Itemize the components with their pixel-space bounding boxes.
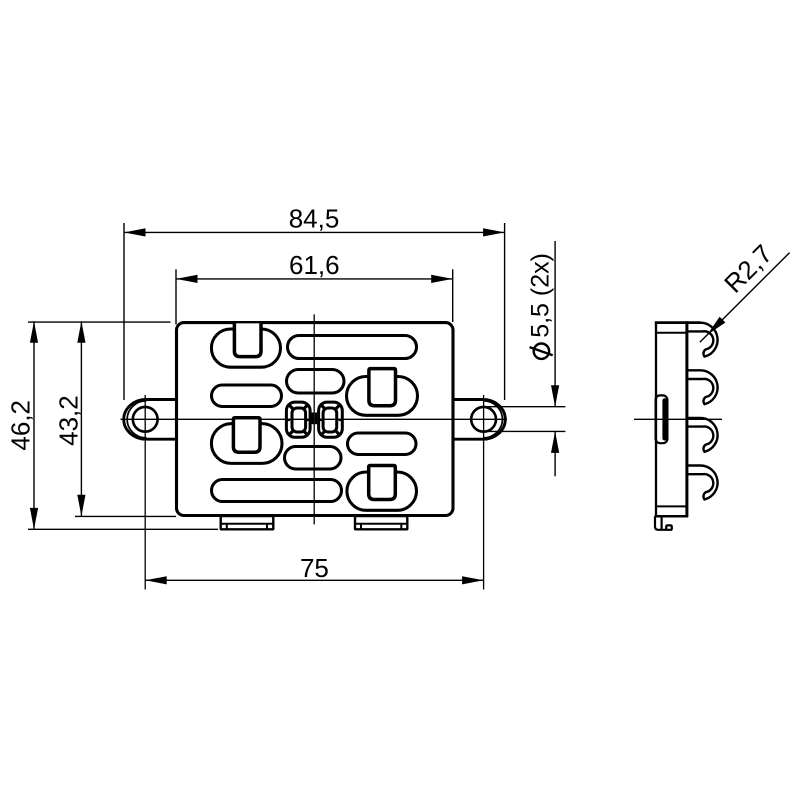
right ear tab outline bbox=[453, 400, 506, 440]
dimension 61,6: dimension line bbox=[176, 278, 453, 280]
left ear hole (d5,5) bbox=[133, 407, 158, 432]
dimension d5,5 (2x): diameter symbol bbox=[534, 344, 549, 359]
dimension 84,5: dimension line bbox=[124, 231, 505, 233]
svg-text:R2,7: R2,7 bbox=[718, 239, 778, 299]
svg-text:84,5: 84,5 bbox=[289, 204, 340, 234]
left ear tab outline bbox=[124, 400, 177, 440]
grommet left inner bbox=[292, 408, 306, 432]
side view plate left edge bbox=[655, 323, 657, 517]
hook 1 (top, R2,7) bbox=[687, 323, 718, 357]
svg-text:46,2: 46,2 bbox=[6, 400, 36, 451]
dimension 43,2: dimension line bbox=[80, 321, 82, 516]
svg-text:5,5 (2x): 5,5 (2x) bbox=[527, 253, 555, 338]
slot: top-right long stadium bbox=[288, 336, 417, 359]
dimension d5,5 (2x): tangent extension lines bbox=[484, 406, 565, 408]
tab of bottom-right oval bbox=[369, 466, 396, 500]
slot: row4 right stadium bbox=[348, 433, 417, 455]
svg-text:75: 75 bbox=[300, 553, 329, 583]
side view ear pill inner band bbox=[662, 401, 667, 439]
grommet left outer bbox=[286, 402, 310, 437]
horizontal centerline (front view) bbox=[121, 418, 508, 420]
svg-text:61,6: 61,6 bbox=[289, 250, 340, 280]
grommet left corner ticks bbox=[289, 405, 293, 409]
slot: center-bottom stadium bbox=[285, 447, 342, 470]
tab of top-left oval (attached to top edge) bbox=[234, 323, 261, 356]
dimension 84,5: extension lines bbox=[123, 223, 125, 400]
svg-text:43,2: 43,2 bbox=[54, 395, 84, 446]
grommet right outer bbox=[319, 402, 343, 437]
tab of middle-right oval bbox=[369, 369, 396, 406]
mounting plate body outline bbox=[177, 323, 454, 516]
hook 3 bbox=[687, 418, 718, 452]
right foot bbox=[355, 516, 407, 529]
left hole vertical crosshair / 75 extension line bbox=[144, 395, 146, 590]
side view ear pill outline bbox=[656, 395, 668, 443]
slot: bottom-left long stadium bbox=[212, 480, 342, 502]
side view plate bottom edge bbox=[655, 515, 688, 518]
side view centerline bbox=[634, 418, 722, 420]
dimension 75: dimension line bbox=[145, 579, 483, 581]
slot: lower-left oval bbox=[211, 424, 282, 464]
right ear inner arc bbox=[483, 401, 502, 438]
left foot bbox=[221, 516, 274, 529]
right ear hole (d5,5) bbox=[471, 407, 496, 432]
dimension 46,2: dimension line bbox=[33, 321, 35, 529]
bridge between grommets bbox=[311, 413, 313, 425]
slot: bottom-right oval bbox=[347, 472, 417, 510]
grommet right inner bbox=[323, 408, 337, 432]
radius R2,7: arrowhead bbox=[707, 317, 725, 335]
slot: row2 left stadium bbox=[212, 385, 282, 407]
slot: center-top stadium bbox=[287, 370, 345, 394]
slot: middle-right oval bbox=[347, 377, 418, 416]
dimension 46,2 / 43,2: top extension line bbox=[28, 321, 171, 323]
tab of lower-left oval bbox=[233, 418, 260, 453]
dimension d5,5 (2x): dimension line bbox=[554, 241, 556, 407]
side view plate right column bbox=[685, 321, 688, 516]
dimension 61,6: extension lines bbox=[175, 269, 177, 324]
vertical centerline (front view) bbox=[313, 314, 315, 524]
grommet right corner ticks bbox=[321, 405, 325, 409]
side view bottom foot bbox=[655, 516, 672, 530]
side view inner top line bbox=[656, 332, 687, 334]
left ear inner arc bbox=[127, 401, 146, 438]
hook 4 bbox=[687, 465, 718, 499]
radius R2,7: leader line bbox=[700, 253, 790, 343]
hook 2 bbox=[687, 370, 718, 404]
dimension 43,2: bottom extension line bbox=[75, 515, 176, 517]
slot: top-left oval bbox=[211, 329, 280, 367]
dimension 46,2: bottom extension line bbox=[28, 528, 218, 530]
side view inner bottom line bbox=[656, 505, 687, 507]
side view plate top edge bbox=[655, 321, 701, 324]
right hole vertical crosshair / 75 extension line bbox=[483, 395, 485, 590]
